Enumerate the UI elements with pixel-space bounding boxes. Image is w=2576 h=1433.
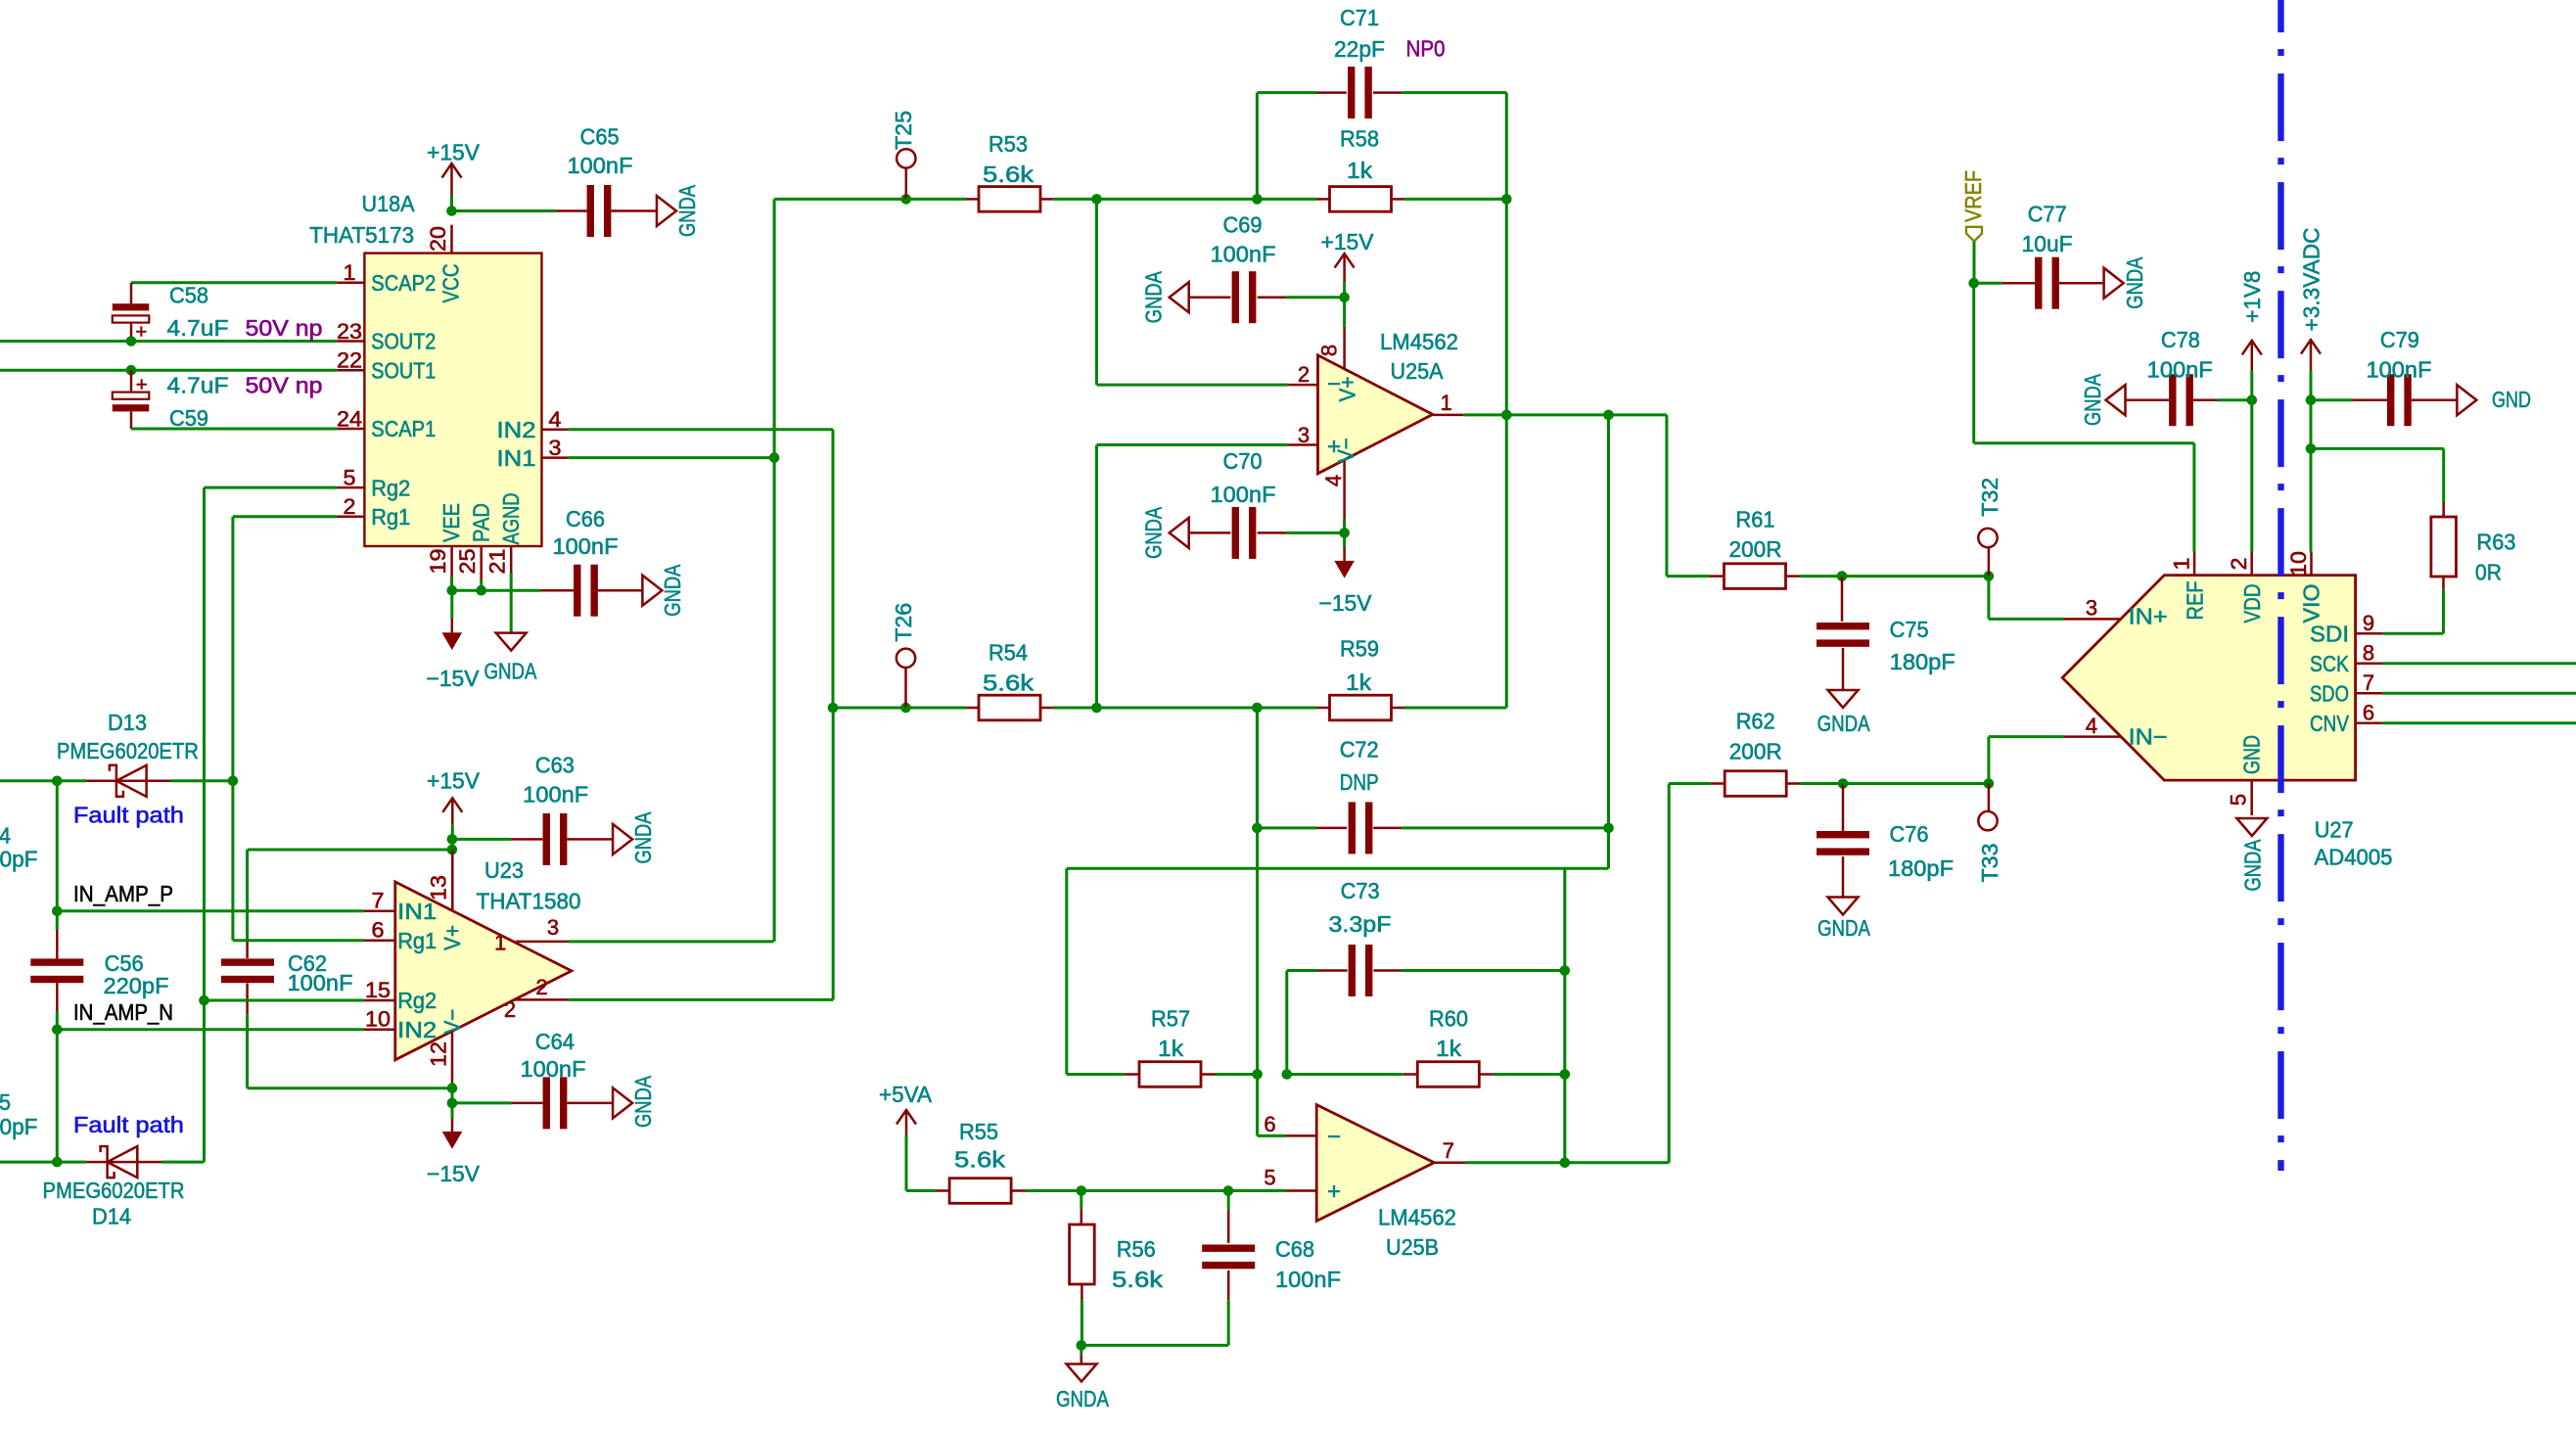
svg-text:SOUT2: SOUT2	[371, 329, 436, 354]
svg-text:SDI: SDI	[2310, 622, 2349, 647]
svg-text:R55: R55	[959, 1119, 998, 1144]
svg-text:2: 2	[2227, 558, 2251, 571]
svg-text:U27: U27	[2315, 817, 2354, 843]
svg-text:C59: C59	[169, 405, 208, 431]
svg-text:5: 5	[344, 465, 356, 489]
svg-text:C63: C63	[535, 753, 575, 778]
svg-text:AGND: AGND	[498, 493, 524, 545]
svg-text:2: 2	[504, 997, 516, 1022]
svg-text:+5VA: +5VA	[879, 1082, 933, 1107]
svg-text:C58: C58	[169, 283, 208, 308]
svg-text:50V np: 50V np	[246, 315, 323, 341]
svg-text:PAD: PAD	[468, 503, 493, 542]
svg-text:IN+: IN+	[2129, 604, 2168, 629]
svg-text:C77: C77	[2028, 202, 2067, 227]
svg-text:3: 3	[547, 915, 559, 940]
svg-text:4: 4	[549, 407, 562, 432]
svg-text:R56: R56	[1117, 1236, 1156, 1262]
svg-text:3: 3	[549, 436, 562, 460]
svg-text:C72: C72	[1340, 736, 1379, 762]
svg-text:4: 4	[1321, 475, 1346, 486]
svg-text:GNDA: GNDA	[2122, 256, 2147, 309]
svg-text:C76: C76	[1890, 821, 1929, 847]
svg-text:GNDA: GNDA	[630, 811, 656, 864]
svg-text:GNDA: GNDA	[1817, 711, 1871, 736]
svg-text:50V np: 50V np	[246, 373, 323, 398]
svg-text:GND: GND	[2239, 735, 2265, 774]
svg-text:C73: C73	[1341, 878, 1380, 903]
svg-text:8: 8	[2363, 641, 2374, 666]
svg-text:D13: D13	[108, 710, 147, 735]
svg-text:1k: 1k	[1347, 158, 1373, 183]
svg-text:0pF: 0pF	[0, 1114, 38, 1139]
svg-text:+15V: +15V	[1321, 229, 1375, 254]
svg-text:100nF: 100nF	[553, 533, 619, 559]
svg-text:THAT5173: THAT5173	[309, 222, 414, 248]
svg-text:IN1: IN1	[497, 445, 536, 471]
svg-text:23: 23	[337, 319, 362, 344]
svg-text:24: 24	[337, 406, 362, 431]
svg-text:200R: 200R	[1729, 739, 1782, 764]
svg-text:IN_AMP_P: IN_AMP_P	[73, 881, 173, 906]
svg-text:100nF: 100nF	[523, 782, 588, 808]
svg-text:22pF: 22pF	[1334, 36, 1385, 62]
svg-text:3: 3	[2086, 595, 2097, 620]
svg-text:R62: R62	[1736, 709, 1775, 734]
svg-text:LM4562: LM4562	[1378, 1205, 1456, 1230]
svg-text:C65: C65	[580, 124, 620, 150]
svg-text:V+: V+	[439, 925, 465, 950]
svg-text:T32: T32	[1977, 478, 2002, 517]
svg-text:V+: V+	[1335, 377, 1360, 402]
svg-text:IN2: IN2	[397, 1017, 437, 1042]
svg-text:R61: R61	[1736, 507, 1775, 532]
svg-text:180pF: 180pF	[1888, 855, 1954, 881]
svg-text:1k: 1k	[1158, 1036, 1184, 1061]
svg-text:25: 25	[455, 549, 480, 575]
svg-text:2: 2	[1298, 362, 1310, 387]
svg-text:C78: C78	[2161, 327, 2200, 352]
svg-text:100nF: 100nF	[2147, 356, 2213, 382]
svg-text:U18A: U18A	[362, 191, 416, 216]
svg-text:3: 3	[1298, 423, 1310, 447]
svg-text:T25: T25	[891, 111, 916, 150]
svg-text:PMEG6020ETR: PMEG6020ETR	[57, 738, 199, 763]
svg-text:+3.3VADC: +3.3VADC	[2299, 228, 2324, 332]
svg-text:U25B: U25B	[1386, 1234, 1439, 1260]
svg-text:19: 19	[426, 549, 450, 575]
svg-text:2: 2	[344, 494, 356, 519]
svg-text:−15V: −15V	[427, 666, 481, 691]
svg-text:GNDA: GNDA	[2080, 373, 2105, 426]
svg-text:C75: C75	[1890, 617, 1929, 642]
svg-text:0pF: 0pF	[0, 846, 38, 871]
svg-text:10: 10	[2286, 551, 2311, 577]
svg-text:1: 1	[1440, 391, 1451, 415]
svg-text:4: 4	[2086, 714, 2097, 738]
svg-text:T33: T33	[1977, 844, 2002, 883]
svg-text:IN_AMP_N: IN_AMP_N	[73, 999, 173, 1025]
svg-text:VDD: VDD	[2239, 584, 2265, 624]
svg-text:U25A: U25A	[1391, 358, 1445, 384]
svg-text:5: 5	[2226, 794, 2250, 806]
svg-text:PMEG6020ETR: PMEG6020ETR	[43, 1178, 185, 1203]
svg-text:SCK: SCK	[2310, 651, 2350, 676]
svg-text:GNDA: GNDA	[674, 184, 700, 237]
svg-text:GNDA: GNDA	[630, 1075, 656, 1128]
svg-text:IN−: IN−	[2129, 724, 2168, 750]
svg-text:C79: C79	[2380, 327, 2419, 352]
svg-text:AD4005: AD4005	[2315, 845, 2393, 870]
svg-text:1k: 1k	[1436, 1036, 1462, 1061]
svg-text:R54: R54	[989, 640, 1028, 666]
svg-text:VEE: VEE	[438, 503, 464, 542]
svg-text:7: 7	[2363, 670, 2374, 695]
svg-text:100nF: 100nF	[568, 153, 633, 178]
svg-text:10: 10	[365, 1007, 391, 1032]
svg-text:IN1: IN1	[397, 899, 437, 924]
svg-text:5.6k: 5.6k	[983, 670, 1035, 696]
svg-text:IN2: IN2	[497, 417, 536, 442]
svg-text:R58: R58	[1340, 126, 1379, 152]
svg-text:+15V: +15V	[427, 140, 481, 165]
svg-text:SDO: SDO	[2310, 681, 2349, 707]
svg-text:GNDA: GNDA	[1056, 1386, 1110, 1411]
svg-text:20: 20	[426, 226, 450, 252]
svg-text:6: 6	[1264, 1112, 1275, 1136]
svg-text:REF: REF	[2182, 581, 2207, 621]
svg-text:+: +	[1327, 1179, 1341, 1205]
svg-text:C64: C64	[535, 1029, 575, 1054]
svg-text:CNV: CNV	[2310, 711, 2350, 736]
svg-text:C70: C70	[1223, 448, 1263, 474]
svg-text:D14: D14	[92, 1204, 131, 1229]
svg-text:C68: C68	[1275, 1236, 1314, 1262]
svg-text:6: 6	[2363, 701, 2374, 725]
svg-text:GNDA: GNDA	[1141, 271, 1167, 324]
svg-text:Rg1: Rg1	[397, 928, 437, 953]
svg-text:1: 1	[344, 260, 356, 285]
svg-text:SOUT1: SOUT1	[371, 357, 436, 383]
svg-text:−15V: −15V	[1319, 590, 1373, 616]
svg-text:7: 7	[1443, 1138, 1454, 1163]
svg-text:GNDA: GNDA	[484, 659, 538, 684]
svg-text:C69: C69	[1223, 212, 1263, 238]
svg-text:V−: V−	[439, 1009, 465, 1035]
svg-text:5.6k: 5.6k	[1112, 1267, 1164, 1292]
svg-text:GNDA: GNDA	[1141, 506, 1167, 559]
svg-text:GNDA: GNDA	[2240, 839, 2266, 892]
svg-text:5.6k: 5.6k	[954, 1147, 1006, 1173]
svg-text:1: 1	[2169, 558, 2193, 571]
svg-text:13: 13	[426, 875, 450, 901]
svg-text:GND: GND	[2492, 387, 2531, 412]
svg-text:6: 6	[372, 918, 385, 943]
svg-text:V−: V−	[1333, 438, 1358, 463]
svg-text:SCAP1: SCAP1	[371, 416, 436, 441]
svg-text:2: 2	[535, 975, 547, 999]
svg-text:THAT1580: THAT1580	[477, 889, 581, 914]
svg-text:3.3pF: 3.3pF	[1329, 911, 1392, 937]
svg-text:U23: U23	[484, 857, 524, 883]
svg-text:10uF: 10uF	[2022, 231, 2073, 256]
svg-text:22: 22	[337, 348, 362, 373]
svg-text:Rg1: Rg1	[371, 504, 410, 530]
svg-text:180pF: 180pF	[1890, 649, 1955, 674]
svg-text:−15V: −15V	[427, 1161, 481, 1186]
svg-text:5: 5	[1264, 1165, 1275, 1189]
svg-text:T26: T26	[891, 603, 916, 642]
svg-text:Fault path: Fault path	[73, 1112, 184, 1137]
svg-text:C71: C71	[1340, 5, 1379, 30]
svg-text:100nF: 100nF	[1275, 1267, 1341, 1292]
svg-text:4: 4	[0, 823, 11, 849]
svg-text:9: 9	[2363, 611, 2374, 635]
svg-text:R53: R53	[989, 131, 1028, 157]
svg-text:100nF: 100nF	[288, 970, 353, 995]
svg-text:8: 8	[1316, 345, 1341, 356]
svg-text:VREF: VREF	[1960, 170, 1986, 222]
svg-text:200R: 200R	[1729, 536, 1782, 562]
svg-text:+15V: +15V	[427, 768, 481, 794]
svg-text:R57: R57	[1151, 1006, 1190, 1032]
svg-text:DNP: DNP	[1340, 769, 1379, 795]
svg-text:VIO: VIO	[2299, 584, 2324, 624]
svg-text:Rg2: Rg2	[371, 475, 410, 500]
svg-text:12: 12	[426, 1041, 450, 1067]
svg-text:Rg2: Rg2	[397, 988, 437, 1013]
svg-text:VCC: VCC	[438, 264, 464, 303]
svg-text:R63: R63	[2477, 529, 2516, 554]
svg-text:15: 15	[365, 978, 391, 1002]
svg-text:7: 7	[372, 889, 385, 913]
svg-text:100nF: 100nF	[521, 1056, 586, 1082]
svg-text:5.6k: 5.6k	[983, 162, 1035, 187]
svg-text:21: 21	[485, 549, 510, 575]
svg-text:Fault path: Fault path	[73, 803, 184, 828]
svg-text:R59: R59	[1340, 636, 1379, 662]
svg-text:4.7uF: 4.7uF	[167, 373, 229, 398]
svg-text:GNDA: GNDA	[1817, 915, 1871, 941]
svg-text:1k: 1k	[1346, 670, 1372, 695]
svg-text:220pF: 220pF	[104, 973, 169, 998]
svg-text:1: 1	[494, 930, 506, 954]
svg-text:C66: C66	[566, 506, 605, 532]
svg-text:+1V8: +1V8	[2239, 271, 2265, 323]
svg-text:GNDA: GNDA	[660, 564, 685, 617]
svg-text:4.7uF: 4.7uF	[167, 315, 229, 341]
svg-text:0R: 0R	[2475, 560, 2502, 585]
svg-text:NP0: NP0	[1406, 36, 1446, 62]
svg-text:LM4562: LM4562	[1380, 329, 1458, 354]
svg-text:100nF: 100nF	[1211, 482, 1276, 507]
svg-text:−: −	[1327, 1124, 1341, 1150]
svg-text:SCAP2: SCAP2	[371, 270, 436, 296]
svg-text:5: 5	[0, 1089, 11, 1115]
svg-text:R60: R60	[1429, 1006, 1468, 1032]
svg-text:100nF: 100nF	[1211, 242, 1276, 267]
svg-text:100nF: 100nF	[2367, 356, 2432, 382]
